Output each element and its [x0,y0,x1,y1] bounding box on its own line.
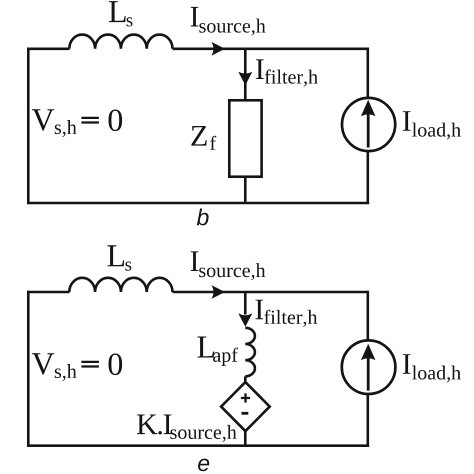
label Iload,h letter I (top circuit b) [403,111,411,131]
wire middle branch upper (top circuit b) [244,49,247,101]
arrow Ifilter,h direction (bottom circuit e) [238,313,252,326]
current source circle (top circuit b) [342,98,395,151]
label Vs,h letter V (bottom circuit e) [32,353,54,375]
equals sign (top circuit b) [81,118,99,123]
impedance Zf box [229,100,261,176]
arrow Isource,h direction (top circuit b) [211,42,225,56]
wire top-right segment (bottom circuit e) [173,291,368,294]
wire middle branch lower (top circuit b) [244,177,247,203]
label Iload,h subscript (bottom circuit e) [412,366,461,383]
label Isource,h subscript (bottom circuit e) [199,263,265,280]
plus sign in diamond [241,393,250,402]
wire top-right segment (top circuit b) [173,47,368,50]
label Iload,h letter I (bottom circuit e) [403,354,411,374]
label Isource,h letter I (bottom circuit e) [191,251,199,271]
wire top-left stub (bottom circuit e) [27,291,70,294]
label Ls subscript s (top circuit b) [127,17,133,26]
wire top-left stub (top circuit b) [27,47,70,50]
inductor Ls (top circuit b) [69,35,172,49]
label Zf subscript f [210,136,216,150]
wire left side (bottom circuit e) [27,292,30,446]
label Vs,h subscript s,h (bottom circuit e) [55,364,77,381]
label zero 0 (top circuit b) [109,110,123,132]
minus sign in diamond [242,412,249,415]
arrow Isource,h direction (bottom circuit e) [211,285,225,299]
label Ifilter,h letter I (top circuit b) [256,59,264,79]
inductor Lapf coil [245,328,255,377]
inductor Ls (bottom circuit e) [69,278,172,292]
label Ls subscript s (bottom circuit e) [125,262,131,271]
label K.Isource,h subscript [170,425,236,442]
current source circle (bottom circuit e) [342,340,396,394]
label Lapf subscript apf [213,348,238,366]
label Ls letter L (bottom circuit e) [107,245,124,266]
label Ifilter,h subscript (top circuit b) [265,69,318,86]
label Iload,h subscript (top circuit b) [412,123,461,140]
equals sign (bottom circuit e) [81,362,99,367]
label Isource,h subscript (top circuit b) [199,19,265,36]
wire left side (top circuit b) [27,49,30,203]
wire middle branch upper (bottom circuit e) [244,292,247,315]
wire right lower (bottom circuit e) [366,394,369,447]
label Vs,h letter V (top circuit b) [32,109,54,131]
wire bottom (bottom circuit e) [27,444,369,447]
label Ls letter L (top circuit b) [109,1,126,22]
wire coil to diamond [244,376,247,382]
label Isource,h letter I (top circuit b) [191,7,199,27]
label Vs,h subscript s,h (top circuit b) [55,120,77,137]
current source arrow Iload,h (bottom circuit e) [361,344,376,391]
current source arrow Iload,h (top circuit b) [361,100,376,148]
label Ifilter,h letter I (bottom circuit e) [255,300,263,320]
panel label e [198,459,209,472]
wire right upper (top circuit b) [366,48,369,99]
label Zf letter Z [191,126,206,146]
label K.I of K.Isource,h [137,415,172,435]
label Ifilter,h subscript (bottom circuit e) [264,310,317,327]
arrow Ifilter,h direction (top circuit b) [238,72,252,85]
wire diamond to bottom rail (bottom circuit e) [244,431,247,446]
label Lapf letter L [197,337,214,358]
wire right upper (bottom circuit e) [366,291,369,341]
wire right lower (top circuit b) [366,151,369,204]
wire bottom (top circuit b) [27,202,369,205]
label zero 0 (bottom circuit e) [109,354,123,376]
dependent source diamond K.Isource,h [221,382,270,431]
panel label b [197,209,209,226]
